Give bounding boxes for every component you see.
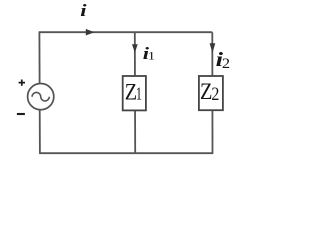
arrow current i (right, on top wire)	[86, 29, 95, 36]
svg-text:i: i	[80, 1, 87, 20]
arrow current i2 (down, branch Z2)	[210, 43, 216, 53]
wire top horizontal	[39, 31, 212, 33]
impedance Z1 box	[123, 76, 146, 110]
wire branch Z1 vertical	[134, 32, 136, 153]
AC source VS circle	[28, 84, 54, 110]
svg-text:2: 2	[211, 85, 219, 105]
svg-text:1: 1	[136, 83, 142, 103]
svg-text:2: 2	[222, 56, 230, 72]
wire bottom horizontal	[39, 152, 213, 154]
wire branch Z2 vertical	[211, 32, 213, 153]
AC source sine wave	[32, 92, 49, 101]
impedance Z2 box	[199, 76, 223, 110]
svg-text:1: 1	[148, 48, 155, 62]
polarity plus sign	[19, 80, 25, 86]
arrow current i1 (down, branch Z1)	[132, 44, 138, 52]
wire left vertical	[38, 31, 41, 153]
polarity minus sign	[17, 113, 25, 115]
